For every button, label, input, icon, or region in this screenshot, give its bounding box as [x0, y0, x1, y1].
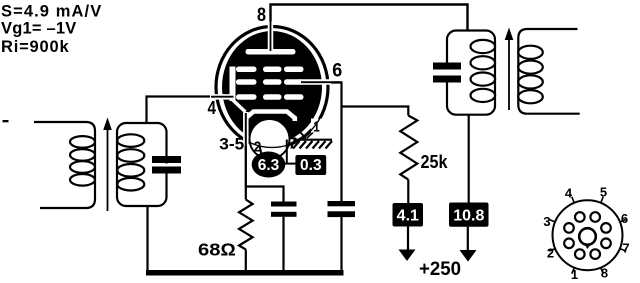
tube envelope outline — [216, 27, 328, 148]
wire g2 branch to 25k resistor — [342, 107, 409, 116]
transformer T2 tuning arrow — [505, 28, 514, 111]
wire 25k to badge — [407, 180, 409, 203]
socket pin 4 — [575, 212, 585, 222]
wire grid g1 from input transformer to tube pin 4 — [147, 97, 214, 125]
wire heater to 0.3 badge — [283, 163, 296, 165]
wire anode supply through output transformer primary — [468, 115, 470, 203]
halo breaks over envelope at lead crossings — [268, 22, 274, 32]
svg-text:Vg1= –1V: Vg1= –1V — [1, 20, 76, 38]
socket center key — [579, 228, 596, 245]
svg-text:8: 8 — [601, 266, 608, 281]
heater lead pin 2 — [260, 146, 262, 155]
capacitor C4 tuning cap across T2 primary — [433, 63, 461, 83]
chassis ground symbol — [293, 140, 332, 149]
cathode electrode — [246, 112, 295, 122]
svg-text:7: 7 — [288, 136, 297, 153]
grid left connector bar — [230, 67, 236, 102]
resistor 25k screen dropper — [400, 116, 417, 180]
socket pin 5 — [590, 212, 600, 222]
svg-text:68Ω: 68Ω — [198, 240, 236, 260]
ground rail (thick bottom bus) — [146, 270, 344, 276]
g2 lead halo — [300, 79, 325, 85]
socket pin 7 — [601, 239, 611, 249]
transformer T1 primary winding (input left) — [34, 122, 95, 208]
capacitor C2 cathode bypass — [271, 202, 297, 217]
svg-text:1: 1 — [313, 119, 320, 136]
wire pin 1 to chassis — [296, 127, 307, 139]
g3 to cathode white diagonal — [233, 100, 246, 112]
socket pin 3 — [564, 223, 574, 233]
svg-text:3: 3 — [543, 214, 550, 229]
g1 lead halo — [210, 94, 233, 100]
svg-text:8: 8 — [257, 4, 266, 26]
svg-text:3-5: 3-5 — [219, 136, 244, 154]
badge 4.1 mA — [393, 203, 424, 227]
socket pin 6 — [601, 223, 611, 233]
tube envelope black disc — [222, 31, 322, 143]
wire input transformer secondary bottom to ground rail — [146, 206, 148, 270]
grid g1 row — [236, 94, 304, 100]
grid g2 row — [236, 79, 304, 85]
transformer T1 tuning arrow — [103, 118, 112, 212]
socket pin 8 — [590, 249, 600, 259]
svg-text:10.8: 10.8 — [453, 208, 484, 225]
capacitor C1 tuning cap across T1 secondary — [152, 156, 181, 174]
heater circle — [250, 119, 290, 159]
svg-text:2: 2 — [254, 138, 262, 155]
pointer from label 1 — [307, 131, 315, 138]
svg-text:5: 5 — [600, 185, 607, 200]
capacitor C3 screen bypass — [328, 201, 356, 217]
socket ticks — [549, 197, 626, 274]
svg-text:7: 7 — [622, 241, 629, 256]
g1 lead wire — [211, 96, 234, 98]
anode lead halo — [268, 30, 274, 49]
wire cathode to 68 ohm resistor and bypass cap tee — [246, 140, 342, 270]
socket pin 1 — [575, 249, 585, 259]
speck at left of input wire — [3, 120, 9, 122]
cathode lead halo — [243, 112, 249, 139]
svg-text:6: 6 — [332, 60, 342, 82]
heater lead pin 7 — [286, 140, 288, 164]
anode lead wire — [270, 5, 272, 51]
cathode lead wire — [245, 113, 247, 187]
tube V1 (pentode) — [210, 5, 342, 187]
transformer T2 secondary winding (output right) — [518, 29, 580, 114]
wire screen g2 from tube pin 6 down to bypass capacitor — [326, 83, 342, 202]
wire anode top rail from tube pin 8 to output transformer — [271, 5, 468, 53]
svg-text:+250: +250 — [419, 259, 461, 280]
svg-text:4: 4 — [565, 186, 573, 201]
svg-text:Ri=900k: Ri=900k — [1, 38, 69, 56]
arrow to +250 (anode feed) — [460, 227, 477, 262]
badge 10.8 mA — [449, 203, 489, 227]
svg-text:S=4.9 mA/V: S=4.9 mA/V — [1, 3, 102, 21]
badge 6.3 V heater — [252, 152, 286, 178]
grid g3 row — [236, 67, 304, 73]
tube socket base diagram — [543, 185, 629, 283]
svg-text:6: 6 — [621, 211, 628, 226]
badge 0.3 A heater current — [295, 155, 326, 175]
resistor 68 ohm cathode bias — [239, 200, 253, 250]
socket outline — [553, 200, 623, 270]
transformer T2 primary winding (output left) — [447, 31, 495, 115]
svg-text:6.3: 6.3 — [258, 157, 280, 174]
svg-text:4.1: 4.1 — [397, 208, 419, 225]
svg-text:4: 4 — [208, 97, 217, 118]
svg-text:2: 2 — [547, 246, 554, 261]
g2 lead wire — [301, 81, 342, 83]
svg-text:25k: 25k — [421, 152, 449, 172]
svg-text:0.3: 0.3 — [300, 157, 322, 174]
anode plate bar — [246, 49, 296, 55]
svg-text:1: 1 — [571, 267, 578, 282]
transformer T1 secondary winding (input right) — [117, 123, 167, 206]
socket pin 2 — [564, 239, 574, 249]
arrow to +250 (screen feed) — [399, 227, 416, 262]
